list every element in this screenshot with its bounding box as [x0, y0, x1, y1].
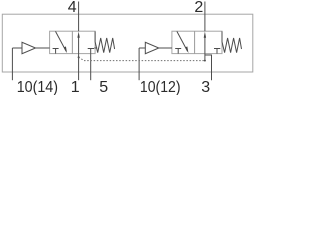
svg-text:10(14): 10(14) — [17, 79, 58, 95]
svg-text:10(12): 10(12) — [140, 79, 181, 95]
svg-text:5: 5 — [99, 79, 108, 95]
svg-text:2: 2 — [194, 0, 203, 16]
svg-text:4: 4 — [68, 0, 77, 16]
svg-text:3: 3 — [201, 79, 210, 95]
svg-text:1: 1 — [71, 79, 80, 95]
